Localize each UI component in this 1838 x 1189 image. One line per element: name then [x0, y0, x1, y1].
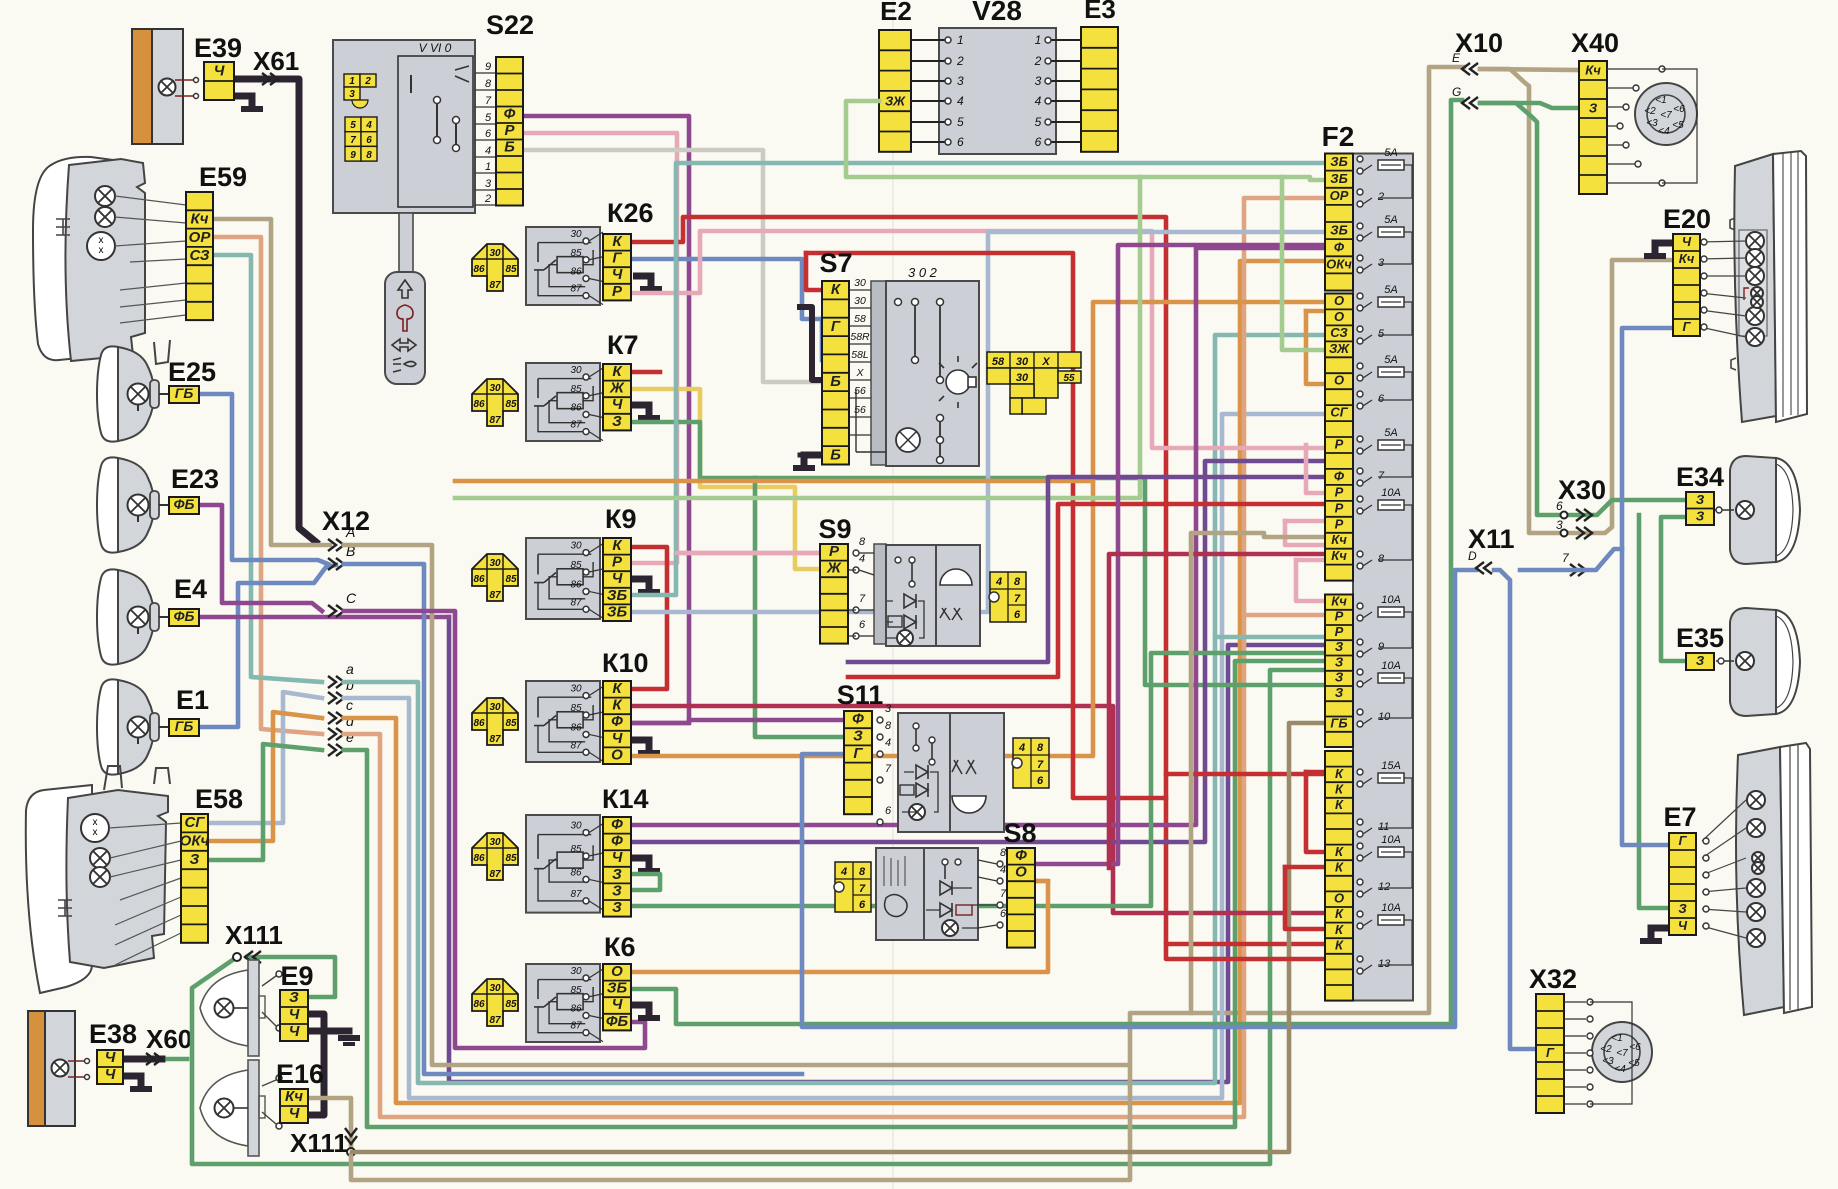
connector X111 bottom — [345, 1128, 357, 1144]
wire blue X12 B trunk — [344, 564, 802, 1074]
svg-text:Р: Р — [612, 554, 623, 571]
svg-text:30: 30 — [489, 558, 501, 569]
connector E20 — [1673, 234, 1700, 336]
lamp E20 bulbs — [1746, 232, 1764, 250]
svg-text:6: 6 — [485, 128, 492, 140]
svg-text:10: 10 — [1378, 711, 1391, 723]
ground at E39 — [234, 96, 252, 107]
svg-text:86: 86 — [570, 1003, 582, 1014]
svg-text:2: 2 — [956, 54, 964, 68]
svg-text:X: X — [855, 367, 864, 379]
svg-text:ГБ: ГБ — [175, 718, 194, 734]
connector S8 — [1007, 847, 1035, 948]
svg-text:x: x — [93, 827, 98, 838]
svg-text:СЗ: СЗ — [1330, 325, 1348, 340]
svg-text:<4: <4 — [1658, 126, 1670, 137]
svg-text:X40: X40 — [1571, 28, 1619, 58]
wire salmon X12 d trunk — [344, 198, 1325, 1117]
wire pink to S9 R — [677, 551, 820, 556]
svg-text:О: О — [1334, 293, 1344, 308]
svg-text:ЗБ: ЗБ — [1330, 154, 1348, 169]
svg-text:Ч: Ч — [289, 1105, 300, 1122]
svg-text:Ч: Ч — [612, 730, 623, 747]
svg-text:8: 8 — [859, 536, 866, 548]
svg-text:58: 58 — [992, 356, 1005, 368]
switch S22 body — [333, 40, 475, 213]
svg-text:О: О — [611, 746, 623, 763]
svg-text:x: x — [99, 245, 104, 256]
svg-text:<7: <7 — [1616, 1048, 1628, 1059]
wire tan F2 Kch — [1191, 533, 1325, 1013]
wire salmon F2 R stub — [1244, 613, 1325, 618]
wire green X111 left loop — [192, 670, 1325, 1164]
svg-text:Б: Б — [830, 446, 841, 463]
ground at K26 Ch — [633, 276, 651, 287]
connector S9 — [820, 543, 848, 644]
svg-text:З: З — [1696, 508, 1705, 523]
svg-text:85: 85 — [505, 718, 517, 729]
wire black E9 Ch pair to ground — [307, 1014, 324, 1115]
svg-text:E2: E2 — [880, 0, 912, 26]
switch S22 grid1 — [344, 74, 376, 108]
svg-text:E25: E25 — [168, 357, 216, 387]
wire red S9-S11 out — [848, 504, 1325, 677]
connector X12 pin A — [328, 539, 344, 551]
wire lightblue E58 SG to X12 b — [208, 692, 322, 823]
wire black E9 ground branch — [307, 1028, 324, 1035]
lamp E39 housing — [132, 29, 152, 144]
svg-text:Кч: Кч — [1331, 593, 1347, 608]
wire green X30 branch to E7 Z — [1639, 515, 1669, 908]
svg-text:Ч: Ч — [612, 396, 623, 413]
svg-text:Кч: Кч — [1585, 63, 1601, 78]
svg-text:8: 8 — [885, 720, 892, 732]
svg-text:E9: E9 — [280, 961, 313, 991]
svg-text:СЗ: СЗ — [189, 247, 209, 264]
svg-text:5А: 5А — [1384, 427, 1397, 439]
svg-text:<5: <5 — [1628, 1058, 1640, 1069]
svg-text:87: 87 — [570, 1021, 582, 1032]
lamp E1 — [118, 680, 154, 774]
svg-text:10А: 10А — [1381, 660, 1401, 672]
switch S8 pin lines — [997, 861, 1003, 867]
wire orange E58 OKch to X12 c — [208, 712, 322, 841]
svg-text:6: 6 — [1000, 908, 1007, 920]
svg-text:E: E — [1452, 51, 1461, 65]
svg-text:30: 30 — [570, 541, 582, 552]
svg-text:30: 30 — [854, 295, 866, 307]
svg-text:X111: X111 — [290, 1128, 348, 1158]
svg-text:86: 86 — [473, 574, 485, 585]
svg-text:X32: X32 — [1529, 964, 1577, 994]
lamp E23 — [118, 458, 154, 552]
svg-text:Ч: Ч — [612, 996, 623, 1013]
svg-text:56: 56 — [854, 404, 866, 416]
svg-text:К10: К10 — [602, 648, 649, 678]
lamp E38 housing — [28, 1011, 45, 1126]
svg-text:Ф: Ф — [1334, 239, 1345, 254]
svg-text:Ч: Ч — [1678, 918, 1688, 933]
svg-text:Кч: Кч — [191, 210, 209, 227]
wire green X60 to X111 vertical — [168, 1057, 187, 1062]
connector X12 pin B — [328, 558, 344, 570]
svg-text:8: 8 — [1378, 553, 1385, 565]
connector E35 — [1686, 653, 1714, 670]
svg-text:7: 7 — [1378, 470, 1385, 482]
svg-text:ФБ: ФБ — [174, 496, 195, 512]
wire tan X10 to X40 Kch — [1480, 69, 1579, 70]
svg-text:6: 6 — [1378, 393, 1385, 405]
ground at K6 Ch — [631, 1005, 649, 1016]
svg-text:d: d — [346, 713, 355, 729]
wire blue K26 G to S11/E20 — [633, 259, 822, 319]
svg-text:87: 87 — [570, 740, 582, 751]
svg-text:Р: Р — [612, 283, 623, 300]
wire teal K6 ZB — [631, 100, 1462, 1024]
svg-text:4: 4 — [840, 866, 847, 878]
svg-text:6: 6 — [859, 899, 866, 911]
wire blue E1 GB to X12 B — [199, 565, 336, 727]
svg-text:Б: Б — [830, 373, 841, 390]
svg-text:85: 85 — [570, 248, 582, 259]
svg-text:<5: <5 — [1672, 120, 1684, 131]
svg-text:30: 30 — [1016, 372, 1029, 384]
lamp E9 — [200, 970, 248, 1046]
svg-text:СГ: СГ — [1330, 405, 1348, 420]
svg-text:К9: К9 — [605, 504, 637, 534]
wire orange F2 O loop — [1306, 309, 1325, 314]
svg-text:10А: 10А — [1381, 902, 1401, 914]
wire blue S11 G trunk — [802, 570, 1476, 1027]
wire tan E16 Kch to X111 bottom — [308, 1098, 351, 1148]
connector S22 — [496, 57, 523, 206]
svg-text:З: З — [612, 866, 622, 883]
svg-text:E1: E1 — [176, 685, 209, 715]
svg-text:10А: 10А — [1381, 594, 1401, 606]
svg-text:5А: 5А — [1384, 214, 1397, 226]
svg-text:Ч: Ч — [289, 1023, 300, 1040]
wire red K9 K loop — [631, 547, 667, 689]
svg-text:4: 4 — [957, 94, 964, 108]
ground at K9 Ch — [631, 579, 649, 590]
relay K7 — [472, 379, 518, 426]
wire lightblue X12 b trunk — [344, 414, 1325, 1098]
svg-text:E16: E16 — [276, 1059, 324, 1089]
wire red F2 K2 stub — [1166, 944, 1325, 959]
svg-text:V VI 0: V VI 0 — [419, 41, 452, 55]
svg-text:E23: E23 — [171, 464, 219, 494]
svg-text:6: 6 — [1556, 499, 1563, 513]
svg-text:30: 30 — [489, 702, 501, 713]
relay K9 — [472, 554, 518, 601]
svg-text:З: З — [853, 728, 863, 745]
svg-text:7: 7 — [350, 135, 356, 146]
svg-text:Ч: Ч — [612, 849, 623, 866]
svg-text:7: 7 — [1037, 759, 1044, 771]
svg-text:E59: E59 — [199, 162, 247, 192]
svg-text:ГБ: ГБ — [175, 385, 194, 401]
svg-text:<2: <2 — [1600, 1044, 1612, 1055]
svg-text:86: 86 — [570, 266, 582, 277]
svg-text:Ф: Ф — [1015, 847, 1027, 864]
svg-text:5А: 5А — [1384, 147, 1397, 159]
svg-text:Б: Б — [504, 138, 515, 155]
svg-text:ОКч: ОКч — [1326, 257, 1352, 272]
relay K6 — [472, 979, 518, 1026]
svg-text:Кч: Кч — [1331, 532, 1347, 547]
ground at E7 — [1651, 928, 1669, 939]
lamp E20 housing — [1734, 154, 1776, 422]
svg-text:87: 87 — [489, 415, 501, 426]
svg-text:4: 4 — [1000, 864, 1006, 876]
svg-text:З: З — [1696, 653, 1705, 668]
svg-text:b: b — [346, 677, 354, 693]
svg-text:3: 3 — [349, 89, 355, 100]
ground at K10 Ch — [631, 740, 649, 751]
svg-text:S11: S11 — [837, 680, 884, 710]
svg-text:85: 85 — [505, 853, 517, 864]
connector S11 — [844, 710, 872, 814]
svg-text:4: 4 — [365, 120, 372, 131]
svg-text:ЗЖ: ЗЖ — [1329, 341, 1350, 356]
connector E3 — [1081, 27, 1118, 152]
svg-text:6: 6 — [1035, 135, 1042, 149]
connector X12 pin e — [328, 744, 344, 756]
svg-text:3: 3 — [957, 74, 964, 88]
svg-text:9: 9 — [485, 61, 491, 73]
svg-text:5: 5 — [1378, 328, 1385, 340]
svg-text:87: 87 — [570, 889, 582, 900]
svg-text:З: З — [190, 851, 200, 868]
svg-text:Ч: Ч — [105, 1049, 116, 1066]
svg-text:2: 2 — [1034, 54, 1042, 68]
wire orange S8 O right — [1035, 879, 1048, 884]
svg-text:E20: E20 — [1663, 204, 1711, 234]
connector E2 — [879, 30, 911, 152]
lamp E7 bulbs — [1747, 791, 1765, 809]
svg-text:Р: Р — [1335, 609, 1344, 624]
wire orange K6 O to S8 — [631, 881, 1048, 972]
svg-text:X: X — [1041, 356, 1050, 368]
wire blue E25 GB to X12 B — [199, 394, 328, 564]
switch S7 body — [871, 281, 886, 465]
lamp E58 housing — [26, 785, 92, 993]
svg-text:87: 87 — [489, 869, 501, 880]
svg-text:7: 7 — [859, 883, 866, 895]
svg-text:К: К — [1335, 906, 1344, 921]
connector S7 — [822, 281, 849, 465]
lamp E7 housing — [1736, 747, 1784, 1015]
svg-text:Р: Р — [1335, 516, 1344, 531]
svg-text:E38: E38 — [89, 1019, 137, 1049]
svg-text:7: 7 — [1000, 888, 1007, 900]
svg-text:3 0 2: 3 0 2 — [908, 265, 938, 280]
svg-text:C: C — [346, 590, 357, 606]
fuse block F2 body — [1353, 154, 1413, 1001]
svg-text:Р: Р — [1335, 437, 1344, 452]
svg-text:5: 5 — [350, 120, 356, 131]
wire tan X10 E to X30/E20 — [1480, 69, 1673, 533]
lamp E59 housing — [33, 157, 113, 360]
lamp E16 — [200, 1070, 248, 1146]
svg-text:2: 2 — [1377, 191, 1384, 203]
svg-text:Р: Р — [1335, 500, 1344, 515]
svg-text:1: 1 — [349, 76, 355, 87]
wire green K14 Z out — [631, 653, 1325, 906]
svg-text:4: 4 — [859, 553, 865, 565]
svg-text:85: 85 — [570, 703, 582, 714]
svg-text:ЗЖ: ЗЖ — [885, 94, 906, 109]
svg-text:О: О — [611, 963, 623, 980]
switch S7 lamp icon — [939, 356, 977, 408]
connector E16 — [280, 1088, 308, 1123]
svg-text:ФБ: ФБ — [174, 608, 195, 624]
wire red K7 K — [631, 370, 660, 375]
lamp E59 bulbs — [95, 186, 115, 206]
svg-text:6: 6 — [957, 135, 964, 149]
svg-text:30: 30 — [1016, 356, 1029, 368]
svg-text:8: 8 — [1014, 576, 1021, 588]
svg-text:К: К — [1335, 797, 1344, 812]
svg-text:К: К — [1335, 766, 1344, 781]
svg-text:К: К — [1335, 781, 1344, 796]
wire lightgreen E2 ZJ — [846, 101, 1325, 180]
svg-text:7: 7 — [859, 593, 866, 605]
switch S7 aux grid — [987, 352, 1081, 414]
wire pink F2 Kch loop — [1296, 558, 1325, 563]
wire red F2 K stub — [1166, 772, 1325, 777]
svg-text:З: З — [1335, 654, 1344, 669]
svg-text:87: 87 — [489, 280, 501, 291]
switch S8 aux grid — [834, 862, 871, 912]
wire lightgreen branch to ZJ cell — [1282, 177, 1325, 350]
connector X32 — [1536, 994, 1564, 1113]
svg-text:D: D — [1468, 549, 1477, 563]
ground at E20 — [1655, 243, 1673, 254]
lamp E58 bulbs — [81, 814, 109, 842]
svg-text:3: 3 — [485, 178, 492, 190]
svg-text:5А: 5А — [1384, 284, 1397, 296]
svg-text:30: 30 — [570, 365, 582, 376]
switch S22 pin lines — [475, 73, 496, 205]
svg-text:К7: К7 — [607, 330, 639, 360]
svg-text:30: 30 — [489, 837, 501, 848]
svg-text:30: 30 — [570, 966, 582, 977]
svg-text:8: 8 — [859, 866, 866, 878]
svg-text:11: 11 — [1378, 821, 1389, 833]
svg-text:S9: S9 — [818, 514, 851, 544]
switch S22 grid2 — [345, 117, 377, 161]
lamp E20 pin lines — [1700, 241, 1746, 242]
svg-text:E39: E39 — [194, 33, 242, 63]
svg-text:87: 87 — [570, 597, 582, 608]
svg-text:6: 6 — [366, 135, 372, 146]
svg-text:85: 85 — [570, 560, 582, 571]
svg-text:1: 1 — [957, 33, 964, 47]
svg-text:4: 4 — [1018, 742, 1025, 754]
svg-text:ГБ: ГБ — [1330, 715, 1347, 730]
svg-text:Ч: Ч — [214, 63, 225, 80]
svg-text:ЗБ: ЗБ — [1330, 222, 1348, 237]
svg-text:3: 3 — [1035, 74, 1042, 88]
svg-text:85: 85 — [570, 384, 582, 395]
wire pink F2 R loop2 — [1306, 445, 1325, 493]
wire red S7 K to F2 K — [806, 253, 1166, 798]
svg-text:Г: Г — [1679, 833, 1688, 848]
svg-text:86: 86 — [473, 853, 485, 864]
wire teal X12 a trunk — [344, 335, 1325, 1083]
svg-text:Г: Г — [612, 250, 622, 267]
svg-text:3: 3 — [1378, 257, 1385, 269]
svg-text:Ж: Ж — [826, 560, 842, 577]
svg-text:15А: 15А — [1381, 760, 1401, 772]
svg-text:ЗБ: ЗБ — [607, 603, 628, 620]
wire violet E23 FB to X12 C — [199, 505, 322, 611]
svg-text:6: 6 — [1037, 775, 1044, 787]
svg-text:Ж: Ж — [609, 380, 625, 397]
wire crimson S8 down — [1109, 554, 1325, 868]
wire red K10 K2 to right — [631, 706, 1325, 913]
wire blue S11 G down — [820, 319, 825, 360]
svg-text:V28: V28 — [972, 0, 1022, 26]
wire white S22 B to S7 — [523, 150, 822, 382]
wire yellow K7 Zh to S9 — [631, 389, 820, 569]
connector X40 socket — [1635, 83, 1697, 145]
lamp E38 bulb — [52, 1060, 69, 1077]
svg-text:8: 8 — [366, 150, 372, 161]
wire black E38 Ch to X60 — [123, 1056, 162, 1063]
svg-text:9: 9 — [1378, 641, 1384, 653]
svg-text:30: 30 — [570, 684, 582, 695]
svg-text:К26: К26 — [607, 198, 654, 228]
svg-text:E58: E58 — [195, 784, 243, 814]
svg-text:Р: Р — [1335, 624, 1344, 639]
lamp E25 — [118, 347, 154, 441]
connector E59 — [186, 192, 213, 320]
svg-text:1: 1 — [1035, 33, 1042, 47]
svg-text:<3: <3 — [1646, 118, 1658, 129]
wire orange X12 c trunk — [344, 261, 1325, 1103]
switch S8 body — [876, 848, 924, 940]
wire green branch to S11 Z — [755, 478, 844, 737]
svg-text:85: 85 — [505, 399, 517, 410]
svg-text:Кч: Кч — [1331, 548, 1347, 563]
svg-text:5А: 5А — [1384, 354, 1397, 366]
svg-text:Ф: Ф — [1334, 468, 1345, 483]
switch S9 pin lines — [853, 550, 859, 556]
wire green K14 Z loop — [631, 874, 660, 890]
wire tan E59 Kch to X12 A — [213, 219, 330, 545]
svg-text:Ф: Ф — [504, 105, 516, 122]
svg-text:8: 8 — [485, 78, 492, 90]
ground at E38 — [123, 1076, 141, 1087]
connector E9 — [280, 989, 308, 1041]
wire brown trunk to F2 GB — [352, 723, 1325, 1152]
connector X12 pin b — [328, 692, 344, 704]
svg-text:З: З — [1335, 670, 1344, 685]
svg-text:85: 85 — [570, 985, 582, 996]
svg-text:86: 86 — [570, 867, 582, 878]
fuse block F2 fuses — [1357, 156, 1363, 162]
svg-text:Кч: Кч — [1679, 251, 1695, 266]
wire pink K26 R — [633, 231, 1325, 448]
svg-text:5: 5 — [485, 112, 492, 124]
wire tan X12 A trunk — [344, 67, 1464, 1065]
switch S11 aux grid — [1012, 738, 1049, 788]
svg-text:Ф: Ф — [611, 816, 623, 833]
wire pink S22 R to right — [523, 133, 677, 563]
svg-text:З: З — [612, 899, 622, 916]
